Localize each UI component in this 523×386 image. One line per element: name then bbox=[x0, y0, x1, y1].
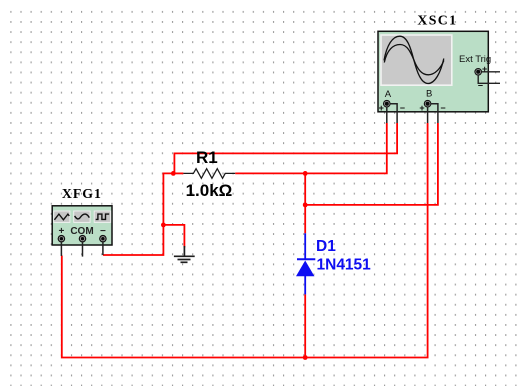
svg-text:R1: R1 bbox=[196, 148, 218, 167]
svg-text:1N4151: 1N4151 bbox=[317, 257, 372, 274]
wire from scope A- down and left to R1 left node bbox=[174, 123, 397, 173]
wire from scope B- down and left to diode top node bbox=[305, 123, 438, 205]
junction at ground node bbox=[161, 223, 166, 228]
svg-text:+: + bbox=[419, 103, 424, 113]
function generator XFG1 bbox=[52, 206, 112, 245]
ground bbox=[174, 246, 195, 262]
terminal + of XFG1 bbox=[58, 236, 64, 242]
svg-text:−: − bbox=[440, 103, 445, 113]
svg-text:−: − bbox=[400, 103, 405, 113]
svg-text:XFG1: XFG1 bbox=[62, 186, 102, 201]
terminal B bbox=[424, 100, 431, 107]
pin A + bbox=[379, 103, 387, 123]
svg-text:+: + bbox=[482, 64, 487, 74]
svg-text:+: + bbox=[379, 103, 384, 113]
wire diode top red segment from R1 right junction down to diode symbol bbox=[304, 173, 306, 233]
wire from XFG1 - pin right and up to ground node bbox=[103, 225, 163, 255]
pin COM of XFG1 bbox=[82, 242, 84, 257]
label + COM - of XFG1 bbox=[58, 226, 106, 237]
svg-text:D1: D1 bbox=[316, 238, 336, 255]
pin B + bbox=[419, 103, 427, 123]
pin + of XFG1 bbox=[60, 242, 62, 256]
diode D1 bbox=[296, 233, 315, 294]
svg-text:B: B bbox=[426, 89, 432, 100]
pin A - bbox=[390, 103, 405, 123]
junction where scope B- wire meets diode wire bbox=[303, 203, 308, 208]
junction at R1 right / diode top node bbox=[303, 171, 308, 176]
svg-text:−: − bbox=[478, 80, 483, 90]
wire bottom loop from scope B+ down, left along bottom, up to XFG1 + pin bbox=[62, 123, 428, 358]
resistor R1 bbox=[183, 169, 235, 179]
terminal COM of XFG1 bbox=[79, 236, 85, 242]
svg-text:A: A bbox=[385, 89, 392, 100]
pin Ext Trig + bbox=[482, 64, 501, 74]
svg-text:XSC1: XSC1 bbox=[417, 12, 457, 27]
junction where diode bottom meets bottom wire bbox=[303, 355, 308, 360]
wire from scope A+ down and left along R1 right node bbox=[235, 123, 387, 173]
wire red stub from R1 left junction to resistor lead bbox=[173, 172, 183, 174]
wire diode bottom red segment down to bottom wire bbox=[304, 294, 306, 357]
wire from ground node junction right and down to ground symbol bbox=[163, 225, 184, 248]
pin B - bbox=[431, 103, 446, 123]
wire jog from ground node up to R1 left junction bbox=[163, 173, 173, 225]
terminal - of XFG1 bbox=[100, 236, 106, 242]
pin Ext Trig - bbox=[478, 75, 500, 90]
pin - of XFG1 bbox=[102, 242, 104, 255]
terminal A bbox=[384, 100, 391, 107]
oscilloscope XSC1 bbox=[378, 31, 488, 112]
terminal Ext Trig bbox=[475, 69, 482, 76]
junction at R1 left node bbox=[171, 171, 176, 176]
svg-text:1.0kΩ: 1.0kΩ bbox=[186, 181, 233, 200]
